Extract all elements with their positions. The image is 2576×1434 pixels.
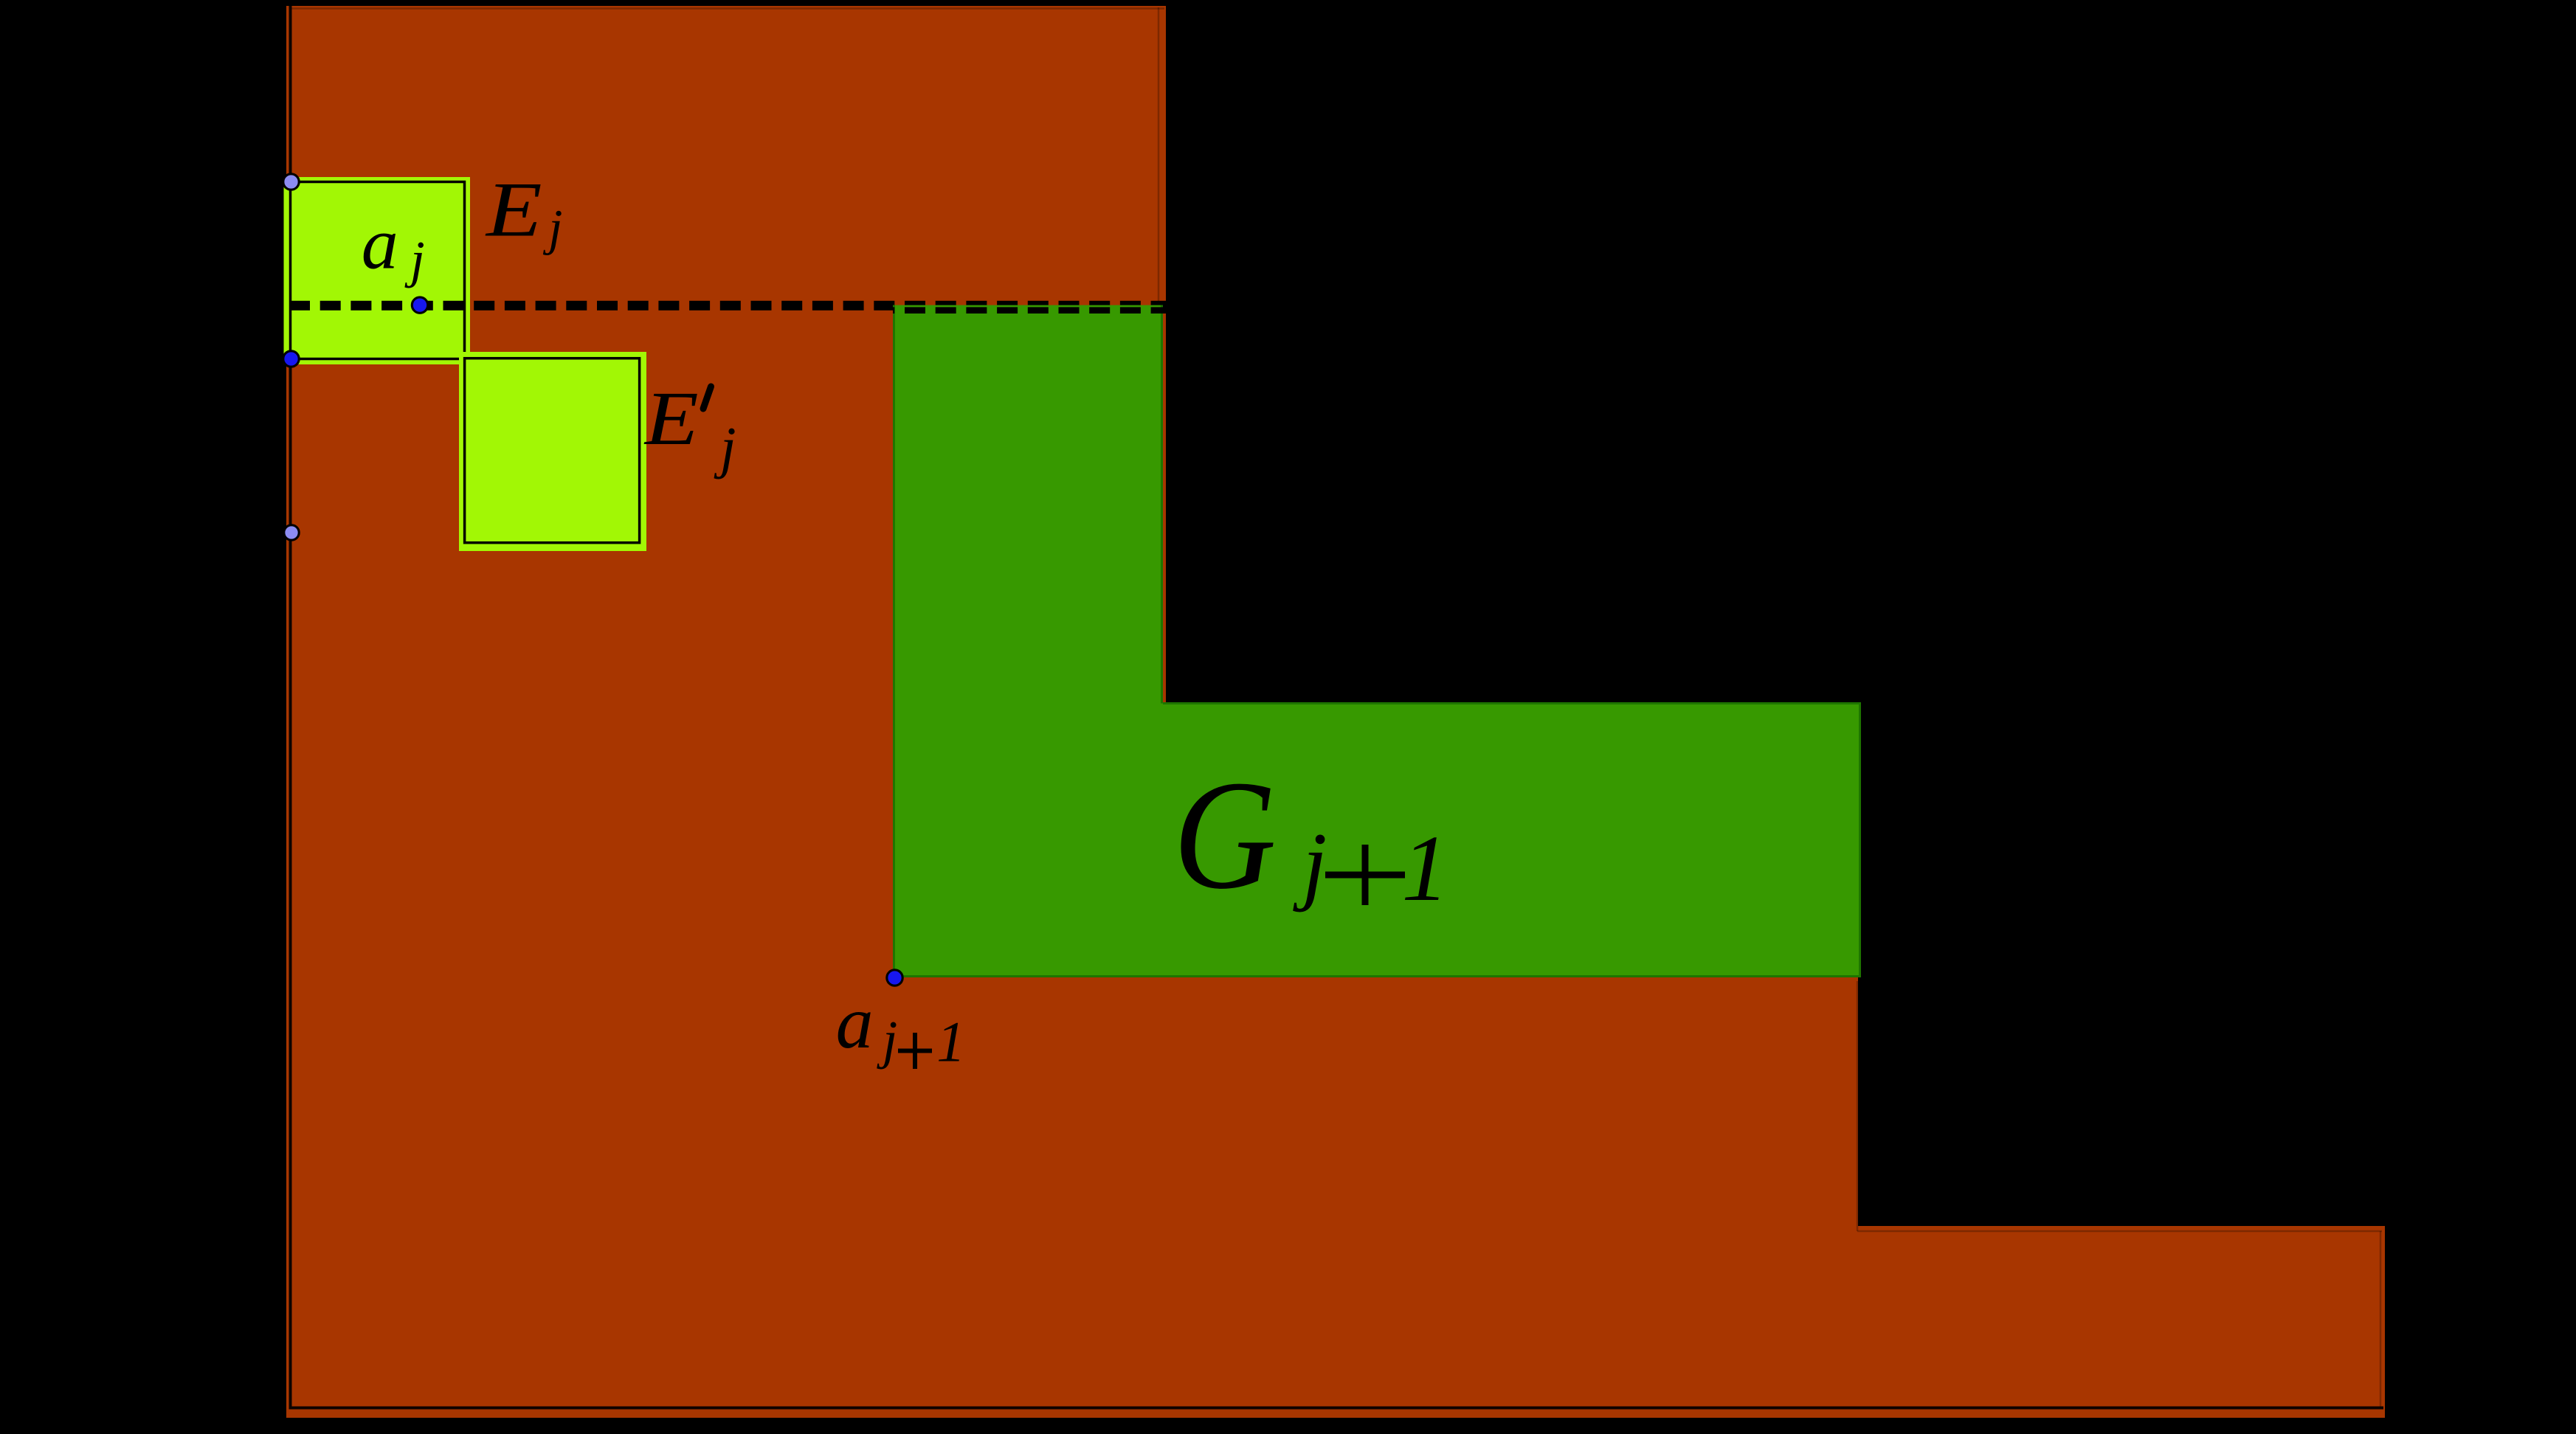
svg-text:1: 1 (936, 1010, 965, 1074)
staircase outline right inset edge of third step (2380, 1231, 2382, 1407)
point a_j+1 (887, 970, 902, 986)
square E'_j border (465, 358, 640, 543)
G_j+1 right border of horizontal arm (1859, 702, 1861, 977)
square E'_j fill (459, 352, 646, 551)
square E_j fill (284, 177, 471, 364)
G_j+1 right border of vertical bar (1161, 305, 1163, 704)
label G_j+1 : subscript plus vertical stroke (1362, 845, 1369, 905)
label a_j+1 : subscript plus horizontal stroke (898, 1049, 932, 1053)
svg-text:a: a (362, 203, 398, 285)
staircase outline right inset edge of first column (1158, 7, 1160, 701)
staircase outline right inset edge of second step (1857, 981, 1859, 1231)
svg-text:a: a (836, 981, 874, 1064)
green region G_j+1 (893, 305, 1861, 977)
square E_j border (291, 182, 465, 359)
svg-text:E: E (643, 376, 699, 461)
G_j+1 bottom border (893, 975, 1861, 977)
label a_j+1 : subscript plus vertical stroke (913, 1033, 917, 1069)
staircase outline bottom edge (289, 1407, 2384, 1410)
dashed line through a_j (290, 301, 1166, 311)
svg-text:G: G (1173, 748, 1277, 921)
point at top-left corner of E_j (light blue) (283, 174, 299, 190)
svg-text:1: 1 (1401, 816, 1448, 921)
point at bottom-left corner of E_j (blue) (283, 351, 299, 367)
point on left boundary below E'_j (light blue) (284, 525, 299, 540)
G_j+1 left border (893, 305, 895, 977)
G_j+1 top border of horizontal arm (1163, 702, 1861, 704)
staircase outline top inset edge of third step (1857, 1230, 2382, 1233)
staircase outline left edge (289, 6, 292, 1409)
label E'_j : prime tick (703, 387, 711, 409)
label G_j+1 : subscript plus horizontal stroke (1325, 872, 1405, 879)
svg-text:E: E (485, 167, 542, 253)
dashed top border of G_j+1 (893, 307, 1166, 314)
staircase outline top inset edge (291, 7, 1164, 10)
point a_j (412, 297, 427, 313)
